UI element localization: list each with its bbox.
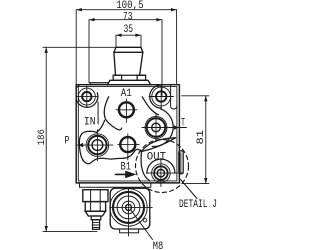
pocket leaf lower edge: [142, 138, 176, 152]
bolt top-left boss arc: [76, 93, 97, 108]
end block circle r6.3: [122, 201, 135, 214]
dimension 35 left arrow: [116, 34, 122, 37]
port P crosshair: [76, 130, 113, 161]
dimension 186 line: [45, 47, 47, 231]
svg-text:35: 35: [124, 24, 134, 36]
M8 stud thread lines: [93, 222, 100, 227]
label B1 flow arrow: [116, 172, 135, 177]
dimension 73 right arrow: [156, 18, 162, 21]
right side tab inner line: [180, 153, 182, 174]
svg-text:73: 73: [123, 12, 133, 24]
cap boot bottom edge: [113, 74, 145, 76]
dimension 81 bottom arrow: [204, 178, 207, 184]
dimension 35 right arrow: [135, 34, 141, 37]
cap rubber boot: [114, 52, 143, 75]
dimension 81 extension bottom: [182, 183, 209, 185]
port T flow arrow: [174, 125, 179, 130]
valve body inner double lines: [78, 87, 177, 181]
bolt top-right crosshair: [149, 85, 174, 109]
end block foot plate: [120, 229, 139, 233]
pocket curve around OUT left: [141, 152, 150, 181]
dimension 81 line: [205, 96, 207, 184]
svg-text:M8: M8: [153, 241, 164, 250]
dimension 73 left arrow: [89, 18, 95, 21]
adjuster hex nut: [83, 190, 108, 202]
port T inner circle: [152, 123, 161, 132]
port A1 crosshair: [116, 99, 137, 122]
port A1 bold circle: [119, 102, 134, 117]
bolt top-right outer circle: [152, 87, 171, 106]
pocket IN vertical line: [97, 102, 99, 124]
port P flow arrow: [79, 143, 84, 148]
end block circle r11.4: [117, 196, 140, 219]
svg-text:DETAIL J: DETAIL J: [179, 199, 217, 211]
svg-text:T: T: [181, 118, 185, 130]
dimension 186 extension top: [43, 46, 116, 48]
valve body outer outline: [76, 85, 179, 183]
svg-text:186: 186: [37, 129, 48, 145]
bolt top-right boss arc: [150, 85, 162, 108]
M8 stud: [93, 220, 100, 230]
right edge slot: [171, 85, 177, 109]
port T outer thin circle: [145, 117, 167, 139]
dimension 35 line: [116, 35, 141, 47]
dimension 81 top arrow: [204, 96, 207, 102]
pocket neck curve right: [104, 97, 121, 130]
bolt top-left outer circle: [78, 88, 95, 105]
port OUT outer circle: [152, 164, 171, 183]
plate under body: [80, 183, 151, 187]
dimension 100,5 line: [76, 10, 176, 85]
svg-text:IN: IN: [84, 116, 96, 128]
dimension 100,5 left arrow: [76, 8, 82, 11]
adjuster mid section: [85, 202, 105, 212]
dimension 186 extension bottom: [43, 231, 97, 233]
leader line M8: [131, 210, 153, 240]
port T bold circle: [147, 118, 166, 137]
body top-left corner chamfer: [76, 85, 79, 88]
dimension 186 top arrow: [45, 47, 48, 53]
leader line DETAIL J: [181, 180, 197, 199]
dimension 100,5 right arrow: [171, 8, 177, 11]
port OUT mid circle: [154, 166, 168, 180]
detail circle J dashed: [136, 140, 189, 193]
port B1 crosshair: [118, 134, 139, 160]
cap left foot: [113, 75, 121, 80]
pocket neck curve left: [97, 120, 105, 132]
dimension 186 bottom arrow: [45, 226, 48, 232]
port OUT crosshair: [147, 159, 184, 187]
adjuster mid facets: [91, 202, 101, 212]
port OUT boss arc: [147, 159, 175, 173]
end block rounded square: [110, 188, 150, 229]
end block bold circle r15.5: [113, 192, 144, 223]
end block circle r3: [126, 204, 132, 210]
svg-text:OUT: OUT: [147, 152, 167, 164]
pocket curve bolt to T: [142, 97, 158, 115]
svg-text:100,5: 100,5: [116, 0, 143, 12]
pocket around P with wave: [79, 131, 141, 163]
adjuster chamfer: [85, 211, 105, 216]
cap flange: [107, 80, 150, 84]
cap right foot: [137, 75, 145, 80]
end block crosshair: [110, 189, 152, 237]
body top step boss: [90, 83, 107, 85]
dimension 73 line: [89, 20, 162, 97]
port OUT inner circle: [157, 169, 164, 176]
port T crosshair: [142, 114, 187, 142]
port B1 bold circle: [120, 137, 135, 152]
bolt top-left crosshair: [76, 86, 98, 108]
port P outer thin circle: [86, 134, 109, 157]
pocket T boss arc: [152, 109, 173, 147]
end block circle r18.7: [110, 189, 147, 226]
adjuster collar: [91, 216, 101, 220]
svg-text:A1: A1: [121, 88, 132, 100]
adjuster hex facets: [91, 190, 101, 202]
right side tab: [179, 151, 183, 174]
port P bold circle: [88, 136, 106, 154]
end block corner bolt circle: [143, 218, 147, 222]
bolt top-left inner bold circle: [82, 92, 91, 101]
bolt top-right inner bold circle: [156, 91, 166, 101]
svg-text:81: 81: [196, 130, 207, 145]
pocket leaf upper edge: [142, 138, 176, 152]
cap top hex: [114, 47, 143, 52]
svg-text:P: P: [65, 136, 70, 148]
port P inner circle: [92, 140, 103, 151]
dimension 81 extension top: [182, 95, 210, 97]
